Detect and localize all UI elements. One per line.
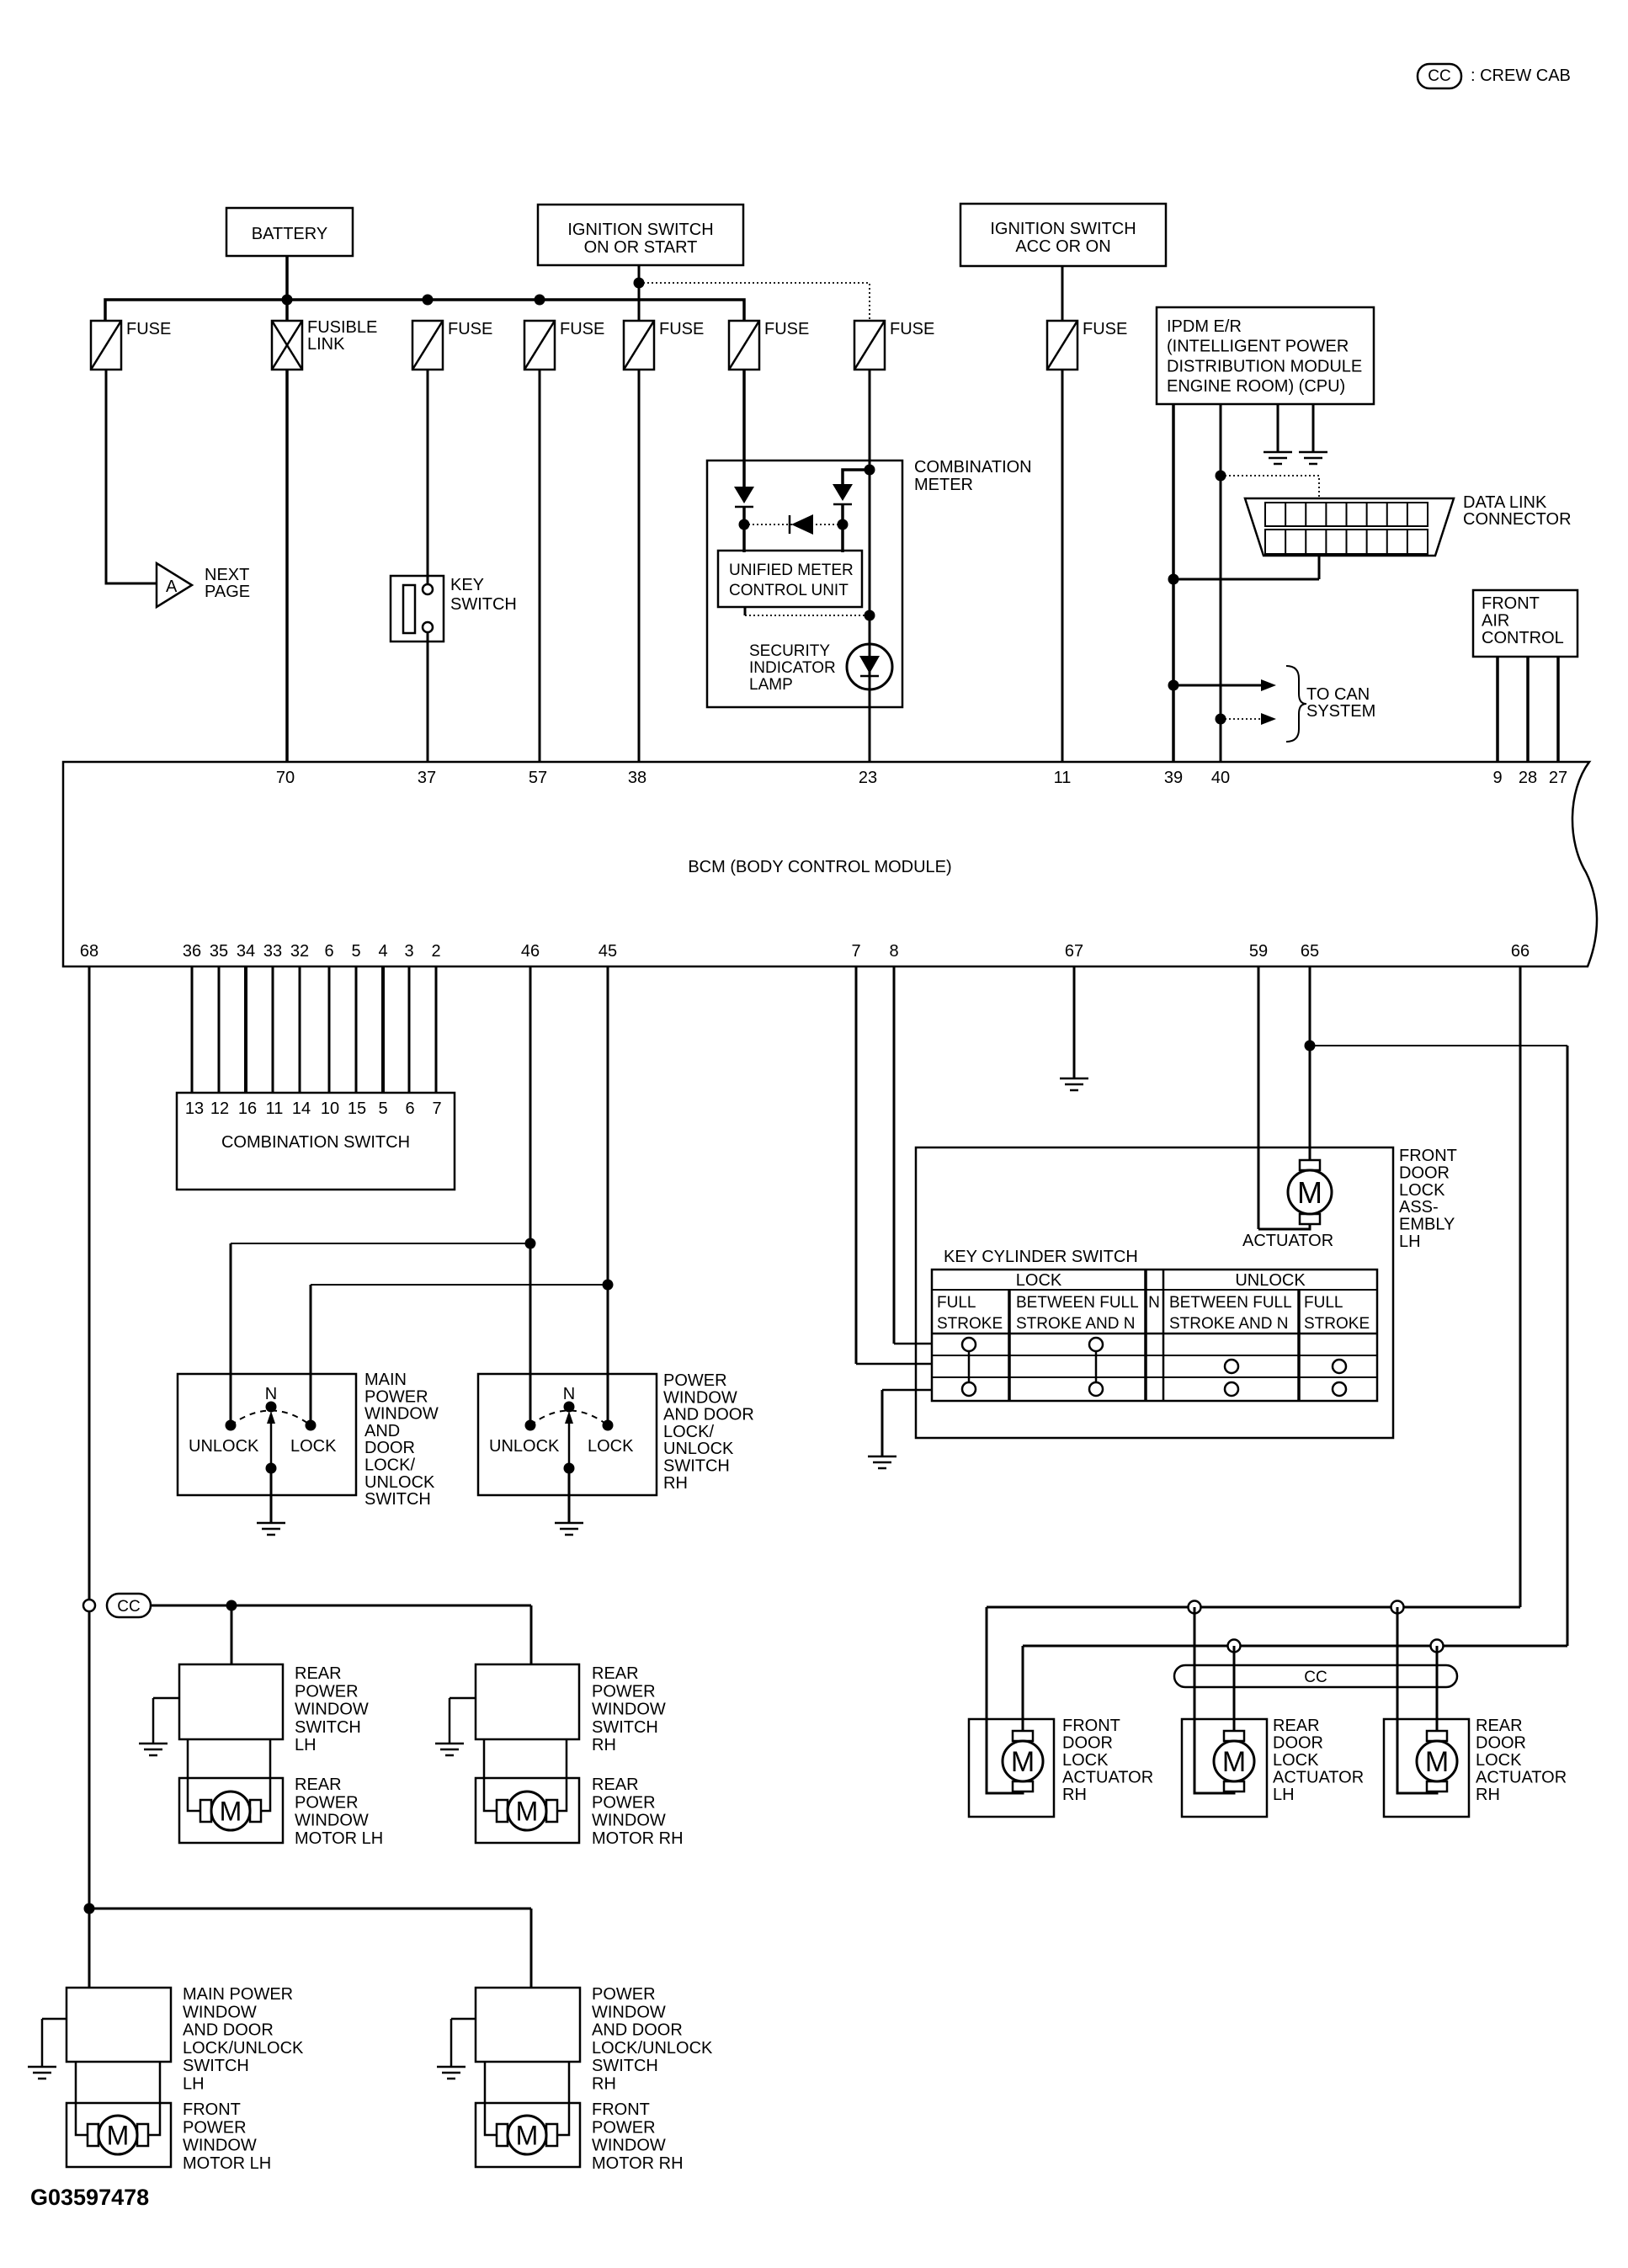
svg-text:ACTUATOR: ACTUATOR	[1476, 1769, 1567, 1787]
svg-text:BETWEEN FULL: BETWEEN FULL	[1169, 1294, 1292, 1312]
svg-text:M: M	[1222, 1746, 1246, 1778]
svg-text:REAR: REAR	[295, 1776, 342, 1794]
svg-text:STROKE AND N: STROKE AND N	[1016, 1315, 1135, 1333]
svg-text:SWITCH: SWITCH	[295, 1718, 361, 1737]
svg-text:UNIFIED METER: UNIFIED METER	[729, 562, 854, 579]
svg-text:UNLOCK: UNLOCK	[489, 1437, 560, 1456]
svg-text:A: A	[166, 578, 178, 596]
svg-text:6: 6	[405, 1099, 414, 1118]
svg-text:16: 16	[238, 1099, 257, 1118]
svg-text:LOCK: LOCK	[1062, 1751, 1109, 1770]
svg-text:WINDOW: WINDOW	[592, 2137, 666, 2155]
svg-text:SYSTEM: SYSTEM	[1306, 702, 1375, 721]
svg-text:11: 11	[1054, 769, 1072, 787]
svg-text:6: 6	[324, 942, 333, 961]
svg-text:KEY CYLINDER SWITCH: KEY CYLINDER SWITCH	[944, 1248, 1138, 1266]
svg-text:DOOR: DOOR	[1273, 1734, 1323, 1753]
svg-text:AND: AND	[364, 1422, 400, 1440]
svg-text:7: 7	[851, 942, 860, 961]
svg-text:LOCK/: LOCK/	[663, 1423, 714, 1441]
svg-text:66: 66	[1511, 942, 1530, 961]
svg-text:SWITCH: SWITCH	[592, 2057, 658, 2075]
svg-text:SWITCH: SWITCH	[183, 2057, 249, 2075]
svg-text:MAIN: MAIN	[364, 1371, 407, 1389]
svg-text:37: 37	[418, 769, 436, 787]
svg-text:WINDOW: WINDOW	[295, 1701, 369, 1719]
svg-text:CONTROL UNIT: CONTROL UNIT	[729, 582, 849, 599]
svg-text:ACC OR ON: ACC OR ON	[1015, 237, 1110, 256]
svg-text:28: 28	[1519, 769, 1537, 787]
svg-text:WINDOW: WINDOW	[592, 2003, 666, 2021]
svg-text:70: 70	[276, 769, 295, 787]
svg-text:WINDOW: WINDOW	[663, 1388, 737, 1407]
svg-text:: CREW CAB: : CREW CAB	[1471, 67, 1571, 85]
svg-text:LOCK: LOCK	[1016, 1271, 1062, 1290]
svg-text:13: 13	[185, 1099, 204, 1118]
svg-text:RH: RH	[592, 2075, 616, 2094]
svg-text:PAGE: PAGE	[205, 583, 250, 601]
svg-text:KEY: KEY	[450, 576, 484, 594]
svg-text:IGNITION SWITCH: IGNITION SWITCH	[990, 220, 1136, 238]
svg-text:BETWEEN FULL: BETWEEN FULL	[1016, 1294, 1139, 1312]
svg-text:BATTERY: BATTERY	[252, 225, 327, 243]
svg-text:M: M	[107, 2121, 130, 2151]
svg-text:M: M	[1297, 1175, 1322, 1210]
svg-text:REAR: REAR	[592, 1776, 639, 1794]
svg-text:32: 32	[290, 942, 309, 961]
svg-text:FUSE: FUSE	[659, 320, 704, 338]
svg-text:35: 35	[210, 942, 228, 961]
svg-text:M: M	[516, 1797, 539, 1827]
svg-text:SWITCH: SWITCH	[364, 1490, 431, 1509]
svg-text:23: 23	[859, 769, 877, 787]
svg-text:45: 45	[599, 942, 617, 961]
svg-text:15: 15	[348, 1099, 366, 1118]
svg-text:AND DOOR: AND DOOR	[183, 2021, 274, 2040]
svg-text:SWITCH: SWITCH	[663, 1457, 730, 1476]
svg-text:7: 7	[432, 1099, 441, 1118]
svg-text:M: M	[1011, 1746, 1035, 1778]
svg-text:59: 59	[1249, 942, 1268, 961]
svg-text:DOOR: DOOR	[364, 1439, 415, 1457]
svg-text:DISTRIBUTION MODULE: DISTRIBUTION MODULE	[1167, 357, 1362, 375]
svg-text:POWER: POWER	[592, 1682, 656, 1701]
svg-text:DOOR: DOOR	[1062, 1734, 1113, 1753]
svg-text:4: 4	[378, 942, 387, 961]
svg-text:COMBINATION SWITCH: COMBINATION SWITCH	[221, 1133, 410, 1152]
svg-text:FUSE: FUSE	[1083, 320, 1127, 338]
svg-text:(INTELLIGENT POWER: (INTELLIGENT POWER	[1167, 338, 1349, 356]
svg-text:WINDOW: WINDOW	[183, 2003, 257, 2021]
svg-text:POWER: POWER	[295, 1682, 359, 1701]
svg-text:ACTUATOR: ACTUATOR	[1242, 1232, 1333, 1250]
svg-text:WINDOW: WINDOW	[364, 1405, 439, 1424]
svg-text:3: 3	[404, 942, 413, 961]
svg-text:METER: METER	[914, 476, 973, 494]
svg-text:10: 10	[321, 1099, 339, 1118]
svg-text:DATA LINK: DATA LINK	[1463, 493, 1547, 512]
svg-text:RH: RH	[592, 1736, 616, 1754]
svg-text:POWER: POWER	[592, 1985, 656, 2004]
svg-text:FULL: FULL	[1304, 1294, 1343, 1312]
svg-text:8: 8	[889, 942, 898, 961]
svg-text:FRONT: FRONT	[592, 2100, 650, 2119]
svg-text:N: N	[265, 1385, 277, 1403]
svg-text:LOCK: LOCK	[1399, 1181, 1445, 1200]
svg-text:MOTOR RH: MOTOR RH	[592, 1829, 684, 1848]
svg-text:STROKE AND N: STROKE AND N	[1169, 1315, 1288, 1333]
svg-text:CONTROL: CONTROL	[1482, 629, 1564, 647]
svg-text:REAR: REAR	[1273, 1717, 1320, 1735]
svg-text:ENGINE ROOM) (CPU): ENGINE ROOM) (CPU)	[1167, 377, 1345, 396]
svg-text:IPDM E/R: IPDM E/R	[1167, 317, 1242, 336]
svg-text:LH: LH	[295, 1736, 317, 1754]
svg-text:FULL: FULL	[937, 1294, 976, 1312]
svg-text:ON OR START: ON OR START	[584, 238, 698, 257]
svg-text:UNLOCK: UNLOCK	[1235, 1271, 1306, 1290]
svg-text:STROKE: STROKE	[1304, 1315, 1370, 1333]
svg-text:FRONT: FRONT	[1399, 1147, 1457, 1165]
svg-text:34: 34	[237, 942, 255, 961]
svg-text:LAMP: LAMP	[749, 676, 793, 694]
svg-text:CC: CC	[117, 1598, 140, 1616]
svg-text:POWER: POWER	[295, 1793, 359, 1812]
svg-text:FUSE: FUSE	[560, 320, 604, 338]
svg-text:2: 2	[431, 942, 440, 961]
svg-text:LOCK: LOCK	[1476, 1751, 1522, 1770]
svg-text:CONNECTOR: CONNECTOR	[1463, 510, 1572, 529]
svg-text:11: 11	[266, 1099, 284, 1118]
svg-text:INDICATOR: INDICATOR	[749, 659, 836, 677]
svg-text:MOTOR LH: MOTOR LH	[183, 2154, 271, 2173]
svg-text:DOOR: DOOR	[1476, 1734, 1526, 1753]
svg-text:FUSE: FUSE	[890, 320, 934, 338]
svg-text:POWER: POWER	[663, 1371, 727, 1390]
svg-text:ACTUATOR: ACTUATOR	[1273, 1769, 1364, 1787]
svg-text:G03597478: G03597478	[30, 2185, 149, 2210]
svg-text:36: 36	[183, 942, 201, 961]
svg-text:5: 5	[378, 1099, 387, 1118]
svg-text:12: 12	[210, 1099, 229, 1118]
svg-text:N: N	[1148, 1294, 1160, 1312]
svg-text:M: M	[1425, 1746, 1449, 1778]
svg-text:NEXT: NEXT	[205, 566, 249, 584]
svg-text:REAR: REAR	[1476, 1717, 1523, 1735]
svg-text:AIR: AIR	[1482, 612, 1509, 631]
svg-text:LH: LH	[183, 2075, 205, 2094]
svg-text:POWER: POWER	[592, 2118, 656, 2137]
svg-text:WINDOW: WINDOW	[592, 1701, 666, 1719]
svg-text:LOCK: LOCK	[588, 1437, 634, 1456]
svg-text:SWITCH: SWITCH	[450, 595, 517, 614]
svg-text:REAR: REAR	[592, 1664, 639, 1683]
svg-text:46: 46	[521, 942, 540, 961]
svg-text:POWER: POWER	[364, 1387, 428, 1406]
svg-text:FRONT: FRONT	[1482, 594, 1540, 613]
svg-text:MAIN POWER: MAIN POWER	[183, 1985, 293, 2004]
svg-text:38: 38	[628, 769, 646, 787]
svg-text:LOCK: LOCK	[1273, 1751, 1319, 1770]
svg-text:LOCK/UNLOCK: LOCK/UNLOCK	[592, 2039, 713, 2058]
svg-text:TO CAN: TO CAN	[1306, 685, 1370, 704]
svg-text:UNLOCK: UNLOCK	[364, 1473, 435, 1492]
svg-text:WINDOW: WINDOW	[183, 2137, 257, 2155]
svg-text:WINDOW: WINDOW	[592, 1812, 666, 1830]
svg-text:UNLOCK: UNLOCK	[189, 1437, 259, 1456]
svg-text:68: 68	[80, 942, 98, 961]
svg-text:MOTOR RH: MOTOR RH	[592, 2154, 684, 2173]
svg-text:STROKE: STROKE	[937, 1315, 1003, 1333]
svg-text:LOCK/: LOCK/	[364, 1456, 415, 1475]
svg-text:14: 14	[292, 1099, 311, 1118]
svg-text:FUSE: FUSE	[448, 320, 492, 338]
svg-text:67: 67	[1065, 942, 1083, 961]
svg-text:LH: LH	[1273, 1786, 1295, 1804]
svg-text:RH: RH	[1062, 1786, 1087, 1804]
svg-text:RH: RH	[663, 1474, 688, 1493]
svg-text:UNLOCK: UNLOCK	[663, 1440, 734, 1458]
svg-text:RH: RH	[1476, 1786, 1500, 1804]
svg-text:N: N	[563, 1385, 575, 1403]
svg-text:ACTUATOR: ACTUATOR	[1062, 1769, 1153, 1787]
svg-text:MOTOR LH: MOTOR LH	[295, 1829, 383, 1848]
svg-text:FRONT: FRONT	[183, 2100, 241, 2119]
svg-text:FUSIBLE: FUSIBLE	[307, 318, 377, 337]
svg-text:AND DOOR: AND DOOR	[592, 2021, 683, 2040]
svg-text:IGNITION SWITCH: IGNITION SWITCH	[567, 221, 713, 239]
svg-text:CC: CC	[1428, 67, 1450, 85]
svg-text:ASS-: ASS-	[1399, 1198, 1439, 1217]
svg-text:33: 33	[263, 942, 282, 961]
svg-text:M: M	[516, 2121, 539, 2151]
svg-text:EMBLY: EMBLY	[1399, 1216, 1455, 1234]
svg-text:40: 40	[1211, 769, 1230, 787]
svg-text:COMBINATION: COMBINATION	[914, 458, 1032, 476]
svg-text:FUSE: FUSE	[764, 320, 809, 338]
svg-text:LOCK: LOCK	[290, 1437, 337, 1456]
svg-text:57: 57	[529, 769, 547, 787]
svg-text:AND DOOR: AND DOOR	[663, 1406, 754, 1424]
svg-text:POWER: POWER	[183, 2118, 247, 2137]
svg-text:FRONT: FRONT	[1062, 1717, 1120, 1735]
svg-text:M: M	[220, 1797, 242, 1827]
svg-text:27: 27	[1549, 769, 1567, 787]
svg-text:5: 5	[351, 942, 360, 961]
svg-text:65: 65	[1301, 942, 1319, 961]
svg-text:REAR: REAR	[295, 1664, 342, 1683]
svg-text:CC: CC	[1304, 1669, 1327, 1686]
svg-text:LINK: LINK	[307, 335, 345, 354]
svg-text:WINDOW: WINDOW	[295, 1812, 369, 1830]
svg-text:BCM (BODY CONTROL MODULE): BCM (BODY CONTROL MODULE)	[688, 858, 951, 876]
svg-text:SECURITY: SECURITY	[749, 642, 830, 660]
svg-text:LH: LH	[1399, 1232, 1421, 1251]
svg-text:SWITCH: SWITCH	[592, 1718, 658, 1737]
svg-text:FUSE: FUSE	[126, 320, 171, 338]
svg-text:POWER: POWER	[592, 1793, 656, 1812]
svg-text:LOCK/UNLOCK: LOCK/UNLOCK	[183, 2039, 304, 2058]
svg-text:9: 9	[1492, 769, 1502, 787]
svg-text:39: 39	[1164, 769, 1183, 787]
svg-text:DOOR: DOOR	[1399, 1163, 1450, 1182]
